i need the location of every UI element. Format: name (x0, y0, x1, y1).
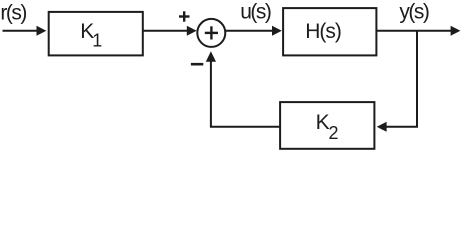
wire H(s) to output arrow (376, 26, 460, 36)
wire arrow up into summing junction (206, 51, 216, 62)
block H(s) (283, 8, 376, 55)
op summing junction circle (197, 19, 225, 47)
plus sign at summing input (179, 11, 190, 21)
svg-text:r(s): r(s) (0, 1, 26, 24)
minus sign at feedback input (191, 63, 203, 66)
svg-text:K: K (316, 111, 330, 134)
label K1 (80, 20, 102, 51)
svg-text:1: 1 (92, 31, 102, 51)
svg-text:H(s): H(s) (305, 20, 341, 43)
wire K2 back to summing junction (211, 61, 280, 127)
wire feedback branch down from output node (386, 31, 417, 127)
plus sign inside summing junction (205, 26, 218, 39)
wire input arrow into K1 (3, 26, 47, 36)
label K2 (316, 111, 339, 143)
svg-text:u(s): u(s) (240, 0, 271, 23)
block K2 (280, 102, 374, 149)
svg-text:y(s): y(s) (399, 0, 428, 23)
block K1 (49, 12, 143, 56)
wire arrow into K2 right side (377, 122, 387, 132)
svg-text:2: 2 (329, 123, 339, 143)
wire K1 to summing junction (143, 26, 197, 36)
wire summing junction to H(s) (225, 26, 281, 36)
